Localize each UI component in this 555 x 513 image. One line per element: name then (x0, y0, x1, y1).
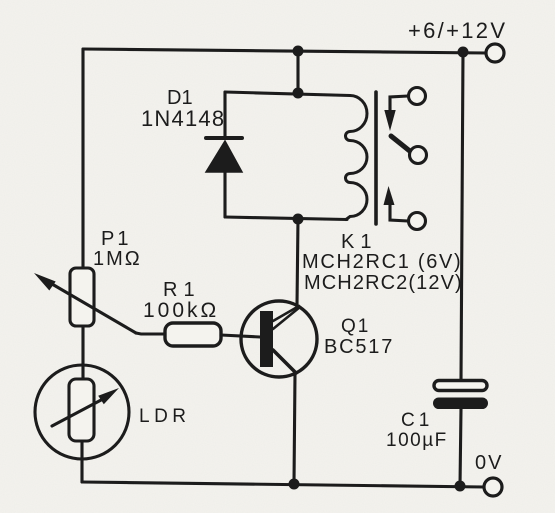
svg-text:C1: C1 (401, 410, 433, 431)
svg-text:0V: 0V (475, 452, 503, 474)
node top-left branch (293, 46, 304, 57)
LDR (35, 365, 129, 459)
svg-text:P1: P1 (101, 228, 131, 250)
wire collector vertical (297, 219, 298, 305)
node emitter bottom (289, 479, 300, 490)
relay contact middle terminal (410, 147, 427, 164)
relay K1 armature bar (374, 92, 378, 224)
transistor Q1 (241, 301, 317, 377)
svg-text:Q1: Q1 (341, 316, 370, 337)
svg-text:LDR: LDR (139, 406, 191, 427)
svg-text:100µF: 100µF (386, 430, 448, 451)
wire pot to R1 (136, 333, 165, 334)
svg-text:R1: R1 (163, 279, 201, 301)
wire emitter vertical (294, 374, 295, 483)
svg-text:BC517: BC517 (324, 336, 394, 358)
wire left vertical lower (80, 441, 83, 482)
wire top rail (83, 49, 486, 53)
svg-text:1MΩ: 1MΩ (93, 248, 142, 270)
relay contact top (NC) (384, 88, 425, 132)
svg-text:100kΩ: 100kΩ (143, 299, 219, 322)
svg-text:K1: K1 (341, 231, 377, 253)
diode D1 (206, 92, 242, 217)
wire right vertical lower (460, 409, 461, 486)
svg-text:1N4148: 1N4148 (141, 106, 225, 131)
node diode loop bottom (293, 214, 304, 225)
wire bottom rail (82, 482, 484, 487)
wire branch to diode loop (296, 51, 299, 93)
wire R1 to base (221, 335, 260, 337)
node top-right branch (458, 47, 469, 58)
svg-text:+6/+12V: +6/+12V (408, 18, 507, 43)
wire left vertical upper (81, 49, 84, 269)
svg-text:MCH2RC1 (6V): MCH2RC1 (6V) (302, 251, 462, 273)
svg-text:MCH2RC2(12V): MCH2RC2(12V) (304, 272, 463, 294)
wire diode loop top (225, 92, 350, 96)
relay K1 coil (346, 96, 368, 220)
relay contact bottom (NO) (384, 186, 426, 230)
wire left vertical middle (81, 326, 84, 380)
wire right vertical upper (461, 52, 463, 381)
capacitor C1 (433, 381, 488, 410)
resistor R1 (165, 323, 221, 346)
relay contact blade (common) (391, 136, 411, 152)
potentiometer P1 (34, 268, 136, 333)
terminal 0V (484, 478, 502, 496)
terminal +V (486, 44, 504, 62)
node diode loop top (293, 88, 304, 99)
node capacitor bottom (455, 481, 466, 492)
wire diode loop bottom (225, 217, 347, 220)
